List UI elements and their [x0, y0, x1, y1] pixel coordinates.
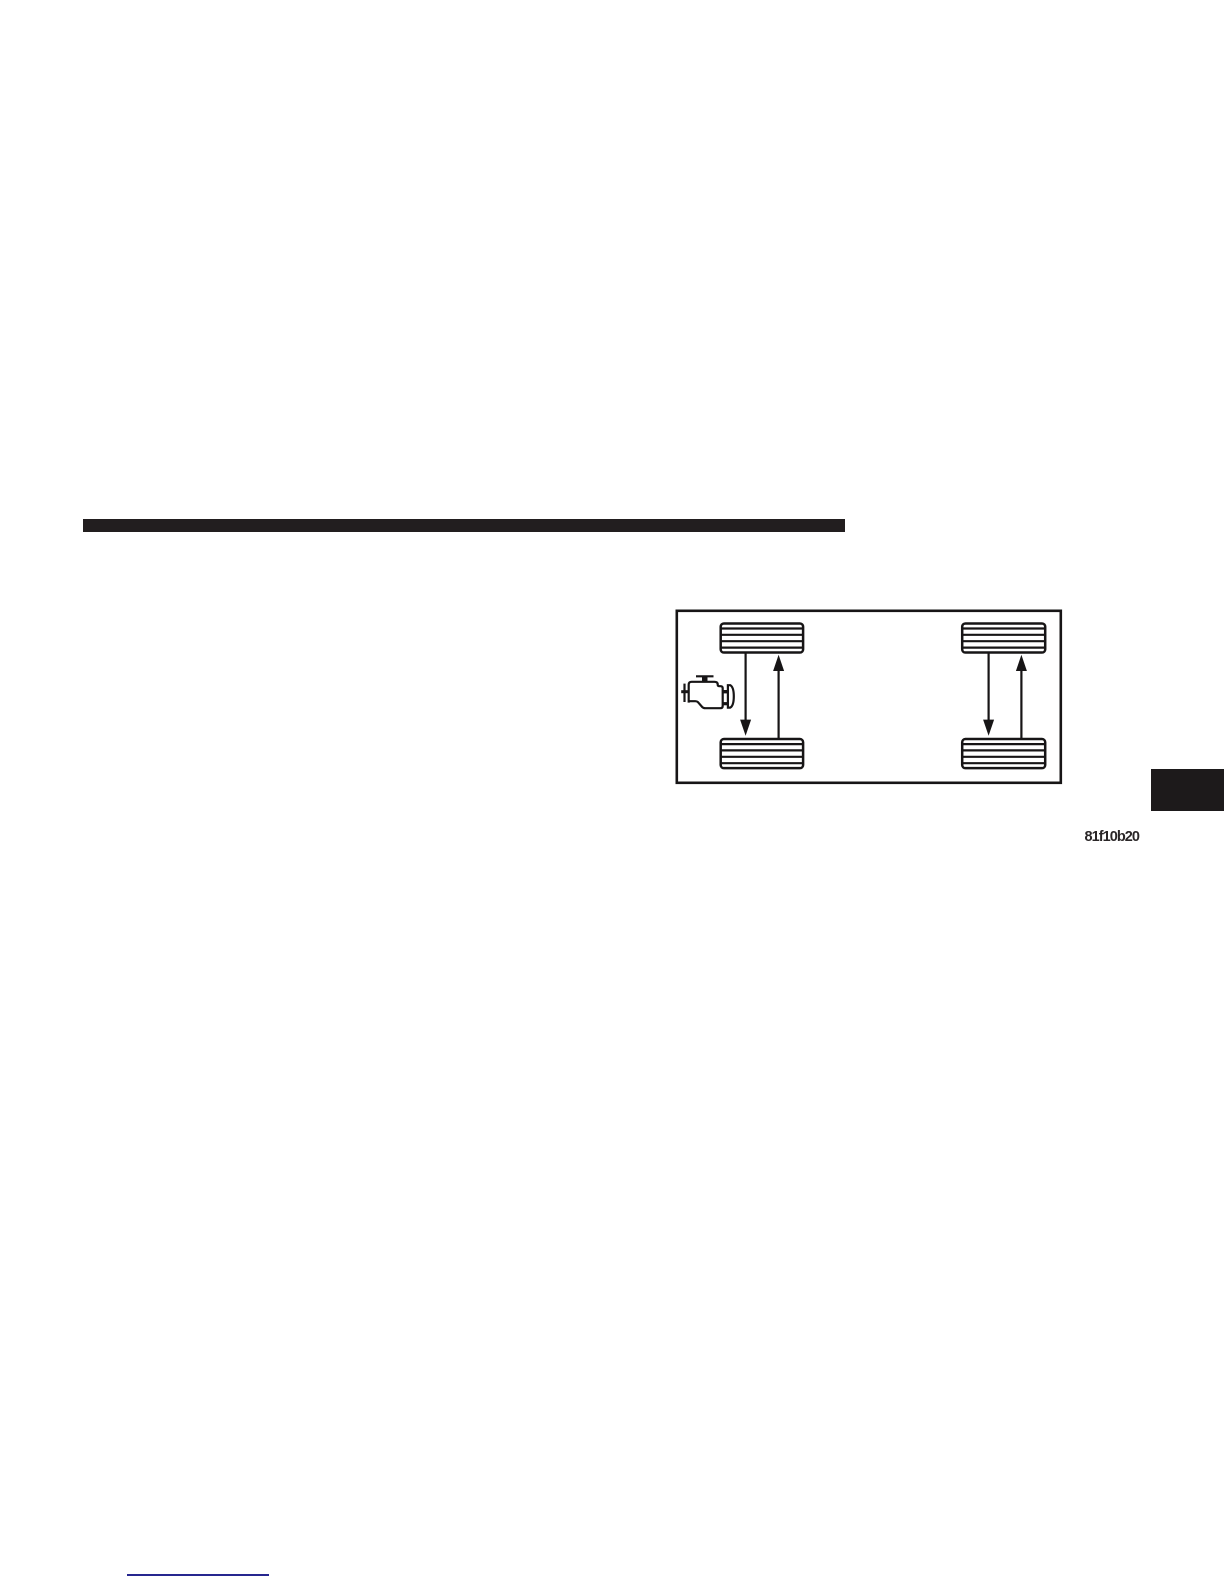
- tire front-left: [720, 623, 803, 652]
- tire rotation figure: [660, 595, 1080, 800]
- bridge upper: [722, 690, 728, 693]
- cap stem: [702, 677, 708, 682]
- arrow left down: [740, 653, 751, 736]
- cap bar: [696, 675, 714, 677]
- engine body: [689, 682, 723, 708]
- tire rear-right: [962, 739, 1046, 768]
- exhaust flange bar: [728, 685, 734, 707]
- bridge lower: [722, 702, 728, 705]
- section divider bar: [83, 519, 845, 532]
- tire front-right: [962, 623, 1046, 652]
- figure code label: [1085, 829, 1143, 845]
- page edge tab: [1151, 769, 1224, 811]
- dipstick tab: [681, 690, 689, 693]
- arrow right up: [1016, 655, 1027, 739]
- vehicle outline box: [677, 611, 1061, 783]
- arrow right down: [983, 653, 994, 736]
- dipstick: [683, 684, 685, 702]
- tire rear-left: [720, 739, 803, 768]
- footer link underline: [127, 1574, 269, 1576]
- engine icon: [681, 676, 734, 708]
- arrow left up: [773, 655, 784, 739]
